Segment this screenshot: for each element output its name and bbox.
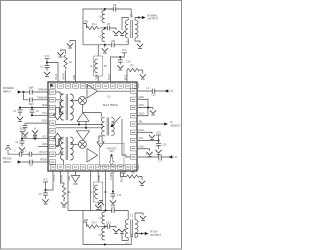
svg-text:GND: GND	[42, 105, 47, 107]
row 140.5: vcc + cap	[137, 140, 159, 142]
capacitor C8 on bottom wire	[112, 44, 114, 46]
svg-text:LO: LO	[170, 89, 173, 93]
transformer internal bottom-center	[102, 118, 115, 136]
svg-text:C8: C8	[111, 39, 115, 43]
svg-text:LO: LO	[174, 155, 177, 159]
vcc node above pin 113	[111, 57, 121, 82]
svg-text:U1: U1	[107, 95, 111, 99]
svg-text:C16: C16	[151, 95, 156, 97]
svg-text:TUNMAIN: TUNMAIN	[37, 96, 48, 99]
output arrow IF MAIN	[142, 16, 146, 19]
svg-text:RF DIV: RF DIV	[3, 157, 12, 161]
mixer upper (circle with X)	[78, 97, 86, 105]
transformer internal lower	[61, 137, 74, 160]
resistor R6	[87, 26, 99, 29]
long wire pin 68 to bottom loop	[68, 171, 83, 211]
svg-text:39pF: 39pF	[28, 104, 34, 106]
svg-text:BIAS: BIAS	[124, 74, 127, 80]
internal junction row wire	[56, 113, 103, 128]
svg-text:SELECT: SELECT	[170, 123, 181, 127]
svg-text:GND: GND	[139, 97, 144, 99]
vcc decoupling node bottom-left	[46, 171, 54, 190]
svg-text:R9: R9	[132, 170, 136, 174]
capacitor C9 top	[110, 8, 117, 10]
sub-block node dot	[110, 154, 112, 156]
svg-text:ADJ: ADJ	[109, 150, 113, 153]
stub from loop to resistor R8	[83, 222, 87, 227]
svg-text:TANK: TANK	[98, 175, 101, 181]
wire amp to right pin	[87, 90, 131, 92]
input arrow	[18, 90, 22, 93]
wire	[56, 139, 64, 146]
cap C13 node below pin 113	[112, 171, 114, 192]
svg-text:GND: GND	[139, 130, 144, 132]
big ground below pin 75.5	[75, 171, 77, 176]
boxed inductor L2 below pin 98	[97, 171, 99, 182]
inductor L5 lower section	[102, 30, 105, 42]
wire mixer down to junction row	[81, 105, 83, 113]
svg-text:MAX1585A: MAX1585A	[103, 103, 118, 107]
svg-text:R6: R6	[85, 20, 89, 24]
wire transformer lower bottom stub	[63, 160, 65, 165]
amp triangle pointing down	[77, 131, 90, 140]
cap C11 on top wire of loop	[112, 210, 114, 212]
T1 secondary bottom to ground	[135, 39, 140, 44]
svg-text:RF MAIN: RF MAIN	[3, 86, 14, 90]
wire pin 90.5 to loop	[90, 171, 92, 211]
internal right vertical wire	[105, 119, 131, 157]
diagonal trim arrow over transformer	[111, 117, 121, 128]
svg-text:GND: GND	[74, 75, 76, 80]
inverted ground above loop wire	[100, 206, 102, 211]
bottom loop: left + bottom	[83, 211, 131, 245]
node dot output	[138, 16, 140, 18]
node dot top wire	[104, 8, 106, 10]
node dot R6/L5	[104, 27, 106, 29]
IC right edge pin boxes	[130, 89, 136, 93]
IC bottom edge pin boxes	[50, 165, 56, 169]
page border frame	[1, 1, 182, 250]
svg-text:IF DIV: IF DIV	[150, 229, 158, 233]
vcc decoupling node top-left	[47, 63, 58, 83]
svg-text:PVCC: PVCC	[109, 73, 111, 80]
ground below C7	[113, 31, 119, 36]
ground below node dot (105,45)	[104, 45, 106, 48]
pin 1 marker	[50, 84, 52, 86]
node dot bottom wire	[104, 44, 106, 46]
boxed inductor L1	[97, 45, 99, 56]
node dot	[78, 123, 80, 125]
wire top loop: top + left + bottom	[83, 9, 131, 45]
svg-text:C12: C12	[106, 220, 111, 224]
svg-text:OUTPUT: OUTPUT	[150, 233, 161, 237]
svg-text:VCC: VCC	[42, 113, 47, 115]
node dot	[85, 127, 87, 129]
svg-text:TANK: TANK	[95, 74, 98, 80]
CPOUT row with two series caps	[8, 153, 48, 155]
svg-text:VCC: VCC	[122, 50, 127, 52]
wire mixer to amp lower	[70, 143, 78, 145]
svg-text:GND: GND	[42, 121, 47, 123]
sub-block box (VCO)	[100, 144, 125, 167]
cap below vcc node	[119, 57, 121, 60]
svg-text:C13: C13	[117, 195, 122, 197]
wire RF main input	[22, 91, 49, 93]
capacitor C7	[105, 28, 116, 30]
svg-text:INPUT: INPUT	[3, 160, 11, 164]
IC left edge pin boxes	[49, 90, 55, 94]
page background	[0, 0, 182, 250]
ground hang above pin 75.5	[70, 41, 76, 83]
resistor pull to gnd above pin 68	[61, 50, 66, 82]
amp triangle lower right	[87, 149, 98, 163]
svg-text:GND: GND	[139, 114, 144, 116]
svg-text:BIAS: BIAS	[120, 176, 123, 182]
hollow arrow lower-left	[53, 133, 61, 145]
transformer internal upper	[61, 94, 74, 120]
wire	[56, 100, 64, 112]
capacitor C6 input main	[30, 91, 32, 93]
hollow arrow upper-left	[53, 108, 61, 120]
svg-text:C7: C7	[107, 22, 111, 26]
stub from loop to resistor R6	[83, 24, 87, 29]
T2 secondary top to ground	[135, 213, 143, 220]
svg-text:46.4: 46.4	[92, 223, 97, 225]
svg-text:C17: C17	[158, 161, 163, 163]
wire pin to upper transformer	[56, 92, 64, 94]
transformer T1	[125, 20, 138, 38]
VCC row	[32, 114, 48, 116]
capacitor C12	[105, 227, 116, 229]
wire to TUNE pin	[24, 92, 49, 100]
svg-text:RFDIV: RFDIV	[40, 160, 47, 162]
svg-text:INPUT: INPUT	[3, 89, 11, 93]
transformer T2	[125, 220, 138, 238]
svg-text:VCC: VCC	[42, 136, 47, 138]
cap C5 below	[21, 139, 23, 141]
resistor to gnd below pin 60.5	[61, 171, 65, 185]
resistor R8	[87, 225, 99, 228]
ground T2 primary bottom	[122, 234, 128, 241]
svg-text:46.4: 46.4	[92, 24, 97, 26]
svg-text:SHDN: SHDN	[64, 73, 66, 80]
svg-text:GND: GND	[139, 105, 144, 107]
svg-text:VCC: VCC	[156, 132, 161, 134]
svg-text:GND: GND	[139, 147, 144, 149]
T1 secondary top to output	[135, 18, 141, 21]
svg-text:33pF: 33pF	[28, 88, 34, 90]
IC top edge pin boxes	[50, 84, 56, 88]
svg-text:VCC3: VCC3	[54, 174, 56, 181]
resistor R7 top right	[126, 70, 128, 82]
svg-text:C15: C15	[162, 145, 167, 147]
row 91: cap to LO arrow	[137, 90, 166, 92]
row 124: select output arrow	[137, 123, 164, 125]
mixer lower	[78, 140, 86, 148]
svg-text:GND: GND	[69, 176, 71, 181]
wire pin to lower transformer	[56, 152, 64, 154]
amp triangle upper	[87, 85, 98, 99]
svg-text:VCC: VCC	[139, 138, 144, 140]
svg-text:R7: R7	[130, 64, 134, 68]
svg-text:C10: C10	[126, 62, 131, 64]
hollow arrow below transformer	[97, 136, 104, 147]
vcc + resistor row below pin 120.5	[121, 171, 127, 177]
ground T1 primary top	[122, 18, 128, 31]
T2 secondary bottom to output	[135, 234, 144, 238]
svg-text:SEL: SEL	[139, 122, 144, 124]
amp triangle pointing down	[77, 113, 89, 128]
GND row with cap	[25, 122, 48, 124]
GND row	[38, 145, 48, 147]
wire xfmr to mixer	[70, 100, 78, 102]
svg-text:R8: R8	[85, 218, 89, 222]
row 157: cap to LO arrow	[137, 156, 170, 158]
VCC + gnd feed row	[22, 138, 48, 140]
svg-text:C11: C11	[111, 207, 116, 209]
svg-text:IF: IF	[170, 120, 173, 124]
row 132: gnd	[137, 132, 152, 134]
svg-text:CPOUT: CPOUT	[39, 152, 48, 154]
svg-text:OUTPUT: OUTPUT	[147, 17, 158, 21]
svg-text:RFMAIN: RFMAIN	[38, 89, 47, 92]
row 148.75: gnd	[137, 149, 150, 151]
svg-text:VCC: VCC	[20, 129, 25, 131]
GND bus rows	[137, 99, 153, 116]
op-amp U1 IC body	[48, 82, 137, 171]
svg-text:VCC: VCC	[45, 56, 50, 58]
svg-text:PWDN: PWDN	[61, 175, 63, 182]
svg-text:GND: GND	[42, 144, 47, 146]
inductor L5 upper section	[102, 11, 105, 23]
svg-text:VCC: VCC	[43, 179, 48, 181]
svg-text:VCC2: VCC2	[56, 73, 58, 80]
svg-text:VTUNE: VTUNE	[111, 172, 113, 180]
sub-block hollow arrow	[109, 157, 114, 165]
GND row with two caps	[20, 107, 48, 109]
inductor lower coils	[102, 212, 105, 224]
svg-text:VCC: VCC	[121, 171, 126, 173]
wire pin 105.5 to loop	[105, 171, 107, 211]
svg-text:C9: C9	[113, 3, 117, 7]
